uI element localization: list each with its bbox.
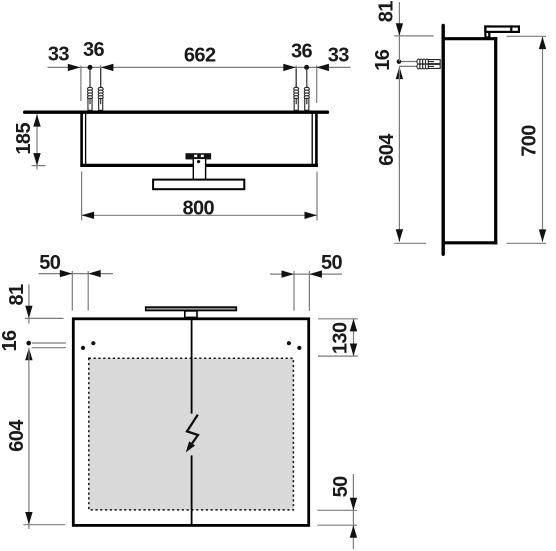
arrow 33 right (pointing left): [316, 64, 329, 71]
light bar (front): [146, 307, 237, 310]
cabinet body left inner wall: [85, 114, 87, 166]
dim 50 TL arrow right: [60, 270, 73, 277]
extension line cabinet right edge: [316, 66, 318, 104]
dim 81 line: [398, 2, 400, 36]
dim 700 arrow up: [539, 37, 546, 50]
dim 800 arrow right: [305, 212, 318, 219]
dim 50 TR ext lines: [293, 271, 295, 311]
dim 700 arrow down: [539, 229, 546, 242]
dim 50 top-right line: [270, 273, 342, 275]
svg-text:50: 50: [321, 252, 343, 274]
svg-text:50: 50: [39, 252, 61, 274]
dim 50 top-left line: [39, 273, 114, 275]
dim 700 extension top: [507, 35, 547, 37]
dim 81 front arrow down: [25, 306, 32, 319]
dim 185 line: [36, 114, 38, 169]
dim 604 front arrow down: [25, 512, 32, 525]
cabinet body bottom (front): [80, 164, 318, 167]
dim 16 front leaders: [32, 342, 66, 344]
door split centre line upper: [191, 320, 193, 414]
cabinet front (side): [494, 37, 497, 244]
dim 604 extension: [394, 242, 426, 244]
dim 50 BR arrow down: [350, 498, 357, 511]
svg-text:662: 662: [184, 45, 216, 67]
svg-text:800: 800: [183, 198, 215, 220]
cabinet front outer box: [73, 319, 308, 526]
cabinet body left outer wall: [80, 114, 83, 167]
dim 81 front line: [28, 284, 30, 323]
light stem (side): [485, 27, 489, 38]
light stem: [193, 159, 205, 180]
arrow 33 left (pointing right): [68, 64, 81, 71]
dim 16 dot: [397, 59, 402, 64]
dim 185 arrow down: [33, 153, 40, 166]
dim 800 extension right: [316, 172, 318, 221]
cabinet body right inner wall: [311, 114, 313, 166]
screw dot right outer: [297, 346, 301, 350]
light mount plate (black): [186, 153, 212, 159]
svg-text:81: 81: [6, 284, 28, 306]
screw dot left inner: [91, 341, 95, 345]
svg-text:33: 33: [48, 44, 70, 66]
door split centre line lower: [191, 455, 193, 524]
wall anchor screw 4: [304, 69, 309, 111]
dim 81 arrow down: [396, 23, 403, 36]
svg-text:36: 36: [291, 41, 313, 63]
dot screw1 chain: [88, 65, 93, 70]
dim 50 TR arrow right: [282, 270, 295, 277]
dim 130 arrow up: [350, 319, 357, 332]
dim 604 front line: [28, 348, 30, 529]
svg-text:33: 33: [328, 45, 350, 67]
wall anchor screw 1: [88, 69, 93, 111]
screw dot right inner: [287, 341, 291, 345]
wall anchor screw 3: [294, 69, 299, 111]
svg-text:185: 185: [13, 123, 35, 155]
cabinet top (side): [444, 37, 497, 40]
svg-text:81: 81: [376, 1, 398, 23]
dim 800 line: [82, 214, 317, 216]
illuminated mirror area (gray, dashed): [89, 358, 294, 510]
dim 81 extension: [394, 35, 433, 37]
wall anchor screw 2: [98, 69, 103, 111]
light bar divider: [510, 25, 512, 33]
dim 700 line: [542, 37, 544, 242]
dim 16 leader upper: [399, 61, 417, 63]
dim 50 TL ext lines: [71, 271, 73, 311]
dim 50 BR arrow up: [350, 525, 357, 538]
extension line screw3: [295, 66, 297, 88]
screw dot left outer: [81, 346, 85, 350]
electrical connection bolt: [186, 415, 198, 453]
dim 16 leader lower: [399, 65, 417, 67]
svg-text:50: 50: [330, 476, 352, 498]
dim 185 extension: [32, 165, 46, 167]
dim 50 TL arrow left: [88, 270, 101, 277]
extension line cabinet left edge: [80, 66, 82, 102]
svg-text:604: 604: [6, 419, 28, 452]
light bar (top view): [153, 180, 244, 190]
dim 604 front extension: [23, 524, 65, 526]
wall line: [25, 110, 328, 113]
cabinet bottom (side): [444, 241, 497, 244]
dim 800 extension left: [81, 172, 83, 221]
dim 130 ext lines: [318, 318, 358, 320]
dimension chain line: [48, 66, 351, 68]
light bar (side): [485, 27, 519, 32]
dim 604 line: [398, 67, 400, 242]
light cable dot: [197, 160, 200, 163]
svg-text:16: 16: [0, 330, 21, 352]
dim 50 bottom-right ext lines: [317, 509, 357, 511]
dim 50 BR line: [352, 474, 354, 549]
dim 800 arrow left: [82, 212, 95, 219]
svg-text:36: 36: [83, 39, 105, 61]
cabinet body right outer wall: [315, 114, 318, 167]
dim 16 front dot: [26, 341, 31, 346]
dot screw4 chain: [304, 65, 309, 70]
svg-text:700: 700: [519, 125, 541, 157]
dim 81 front extension: [25, 317, 64, 319]
arrow 662 left (pointing left): [101, 64, 114, 71]
dim 16 front arrow up: [25, 348, 32, 361]
dim line between arrows: [398, 36, 400, 62]
wall line (side): [442, 25, 445, 254]
side anchor upper: [417, 59, 440, 64]
svg-text:604: 604: [376, 133, 398, 166]
svg-text:130: 130: [329, 322, 351, 354]
dim 604 arrow down: [396, 229, 403, 242]
side anchor lower: [417, 64, 440, 69]
arrow 662 right (pointing right): [283, 64, 296, 71]
dim 185 arrow up: [33, 114, 40, 127]
dim 50 TR arrow left: [309, 270, 322, 277]
dim 16 arrow up: [396, 67, 403, 80]
extension line screw2: [100, 66, 102, 88]
light stem (front): [185, 311, 197, 318]
dim 130 line: [353, 319, 355, 356]
dim 130 arrow down: [350, 344, 357, 357]
dim 700 extension bottom: [507, 242, 547, 244]
svg-text:16: 16: [372, 49, 394, 71]
